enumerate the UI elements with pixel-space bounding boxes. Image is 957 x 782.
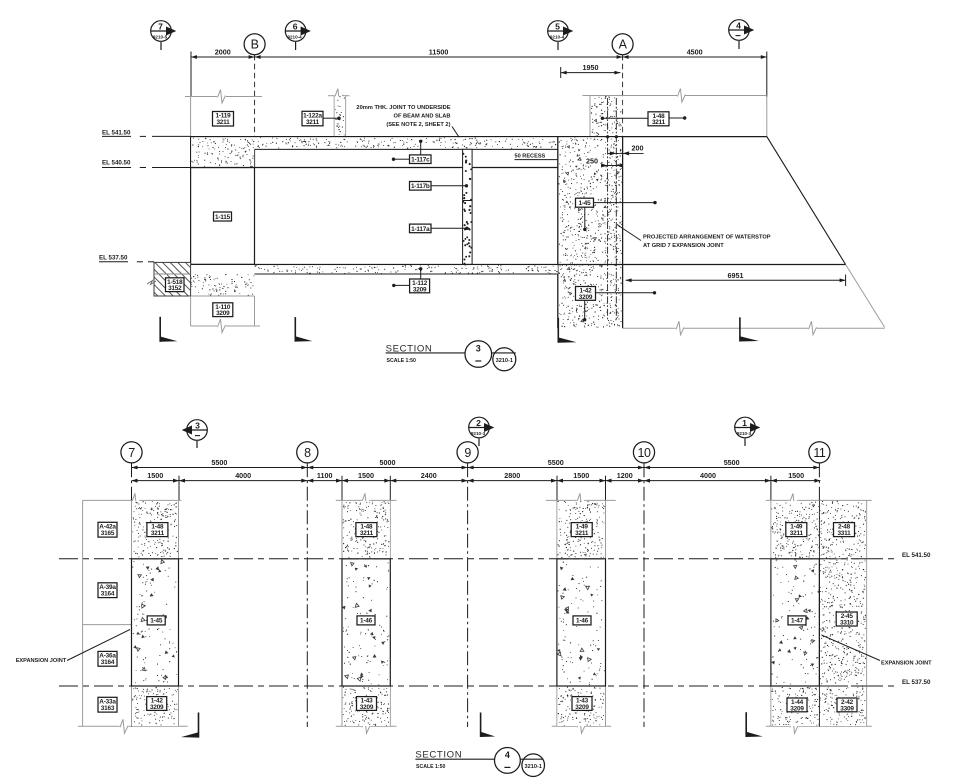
label 1-119/3211 (213, 112, 234, 127)
svg-text:PROJECTED ARRANGEMENT OF WATER: PROJECTED ARRANGEMENT OF WATERSTOP (643, 235, 771, 241)
svg-text:4000: 4000 (700, 471, 716, 480)
svg-text:3152: 3152 (168, 285, 182, 292)
svg-text:3209: 3209 (575, 704, 589, 711)
svg-text:3211: 3211 (575, 530, 589, 537)
svg-text:EXPANSION JOINT: EXPANSION JOINT (16, 658, 67, 664)
svg-text:3163: 3163 (101, 705, 115, 712)
svg-text:9: 9 (464, 446, 471, 460)
label 1-117c (392, 140, 431, 164)
svg-text:4: 4 (736, 20, 741, 30)
svg-text:1500: 1500 (573, 471, 589, 480)
svg-text:3164: 3164 (101, 659, 115, 666)
svg-text:9210-5: 9210-5 (153, 34, 168, 39)
EL 537.50 chain line (59, 685, 898, 687)
svg-text:3164: 3164 (101, 591, 115, 598)
svg-text:EXPANSION JOINT: EXPANSION JOINT (881, 661, 932, 667)
label 1-42/3209 (576, 287, 657, 322)
small wall stipple (335, 96, 345, 136)
svg-text:3209: 3209 (790, 705, 804, 712)
note 20mm thk joint (356, 105, 466, 149)
svg-text:3211: 3211 (790, 530, 804, 537)
svg-text:3211: 3211 (216, 119, 230, 126)
main dimension row 5500/5000/5500/5500 (132, 467, 820, 469)
dimension 1950 (561, 67, 621, 78)
section 3 title (386, 341, 516, 371)
svg-text:3211: 3211 (306, 119, 320, 126)
svg-text:EL 540.50: EL 540.50 (102, 159, 131, 166)
svg-text:B: B (251, 38, 259, 52)
svg-text:200: 200 (632, 144, 644, 153)
grid circle A (612, 34, 633, 137)
label 1-112/3209 (392, 267, 430, 293)
strip 3 (grid 9) (546, 493, 616, 733)
section marker 4 (729, 20, 755, 49)
svg-text:2: 2 (476, 418, 481, 428)
section marker 5 (9210-4) (548, 21, 574, 50)
svg-text:10: 10 (638, 446, 651, 460)
svg-text:3: 3 (195, 420, 200, 430)
svg-text:5: 5 (555, 21, 560, 31)
svg-text:1100: 1100 (317, 471, 333, 480)
svg-text:OF BEAM AND SLAB: OF BEAM AND SLAB (394, 114, 451, 120)
svg-text:1500: 1500 (147, 471, 163, 480)
svg-text:5500: 5500 (724, 458, 740, 467)
svg-text:AT GRID 7 EXPANSION JOINT: AT GRID 7 EXPANSION JOINT (643, 243, 724, 249)
section marker 6 (9210-4) (285, 21, 311, 50)
grid circles 7 8 9 10 11 (121, 442, 830, 463)
svg-text:5000: 5000 (380, 458, 396, 467)
svg-text:SCALE 1:50: SCALE 1:50 (387, 358, 417, 364)
svg-text:3211: 3211 (360, 530, 374, 537)
expansion joint note right (822, 635, 933, 667)
label 1-518/3152 (166, 278, 185, 292)
svg-text:4: 4 (505, 750, 510, 760)
section 4 title (415, 748, 544, 777)
label 1-45 (576, 198, 657, 231)
svg-text:6: 6 (293, 21, 298, 31)
svg-text:EL 537.50: EL 537.50 (99, 254, 128, 261)
beam strip at joint (463, 149, 473, 264)
svg-text:11500: 11500 (429, 48, 449, 57)
svg-text:1-47: 1-47 (791, 618, 804, 625)
svg-text:3310: 3310 (840, 619, 854, 626)
svg-text:7: 7 (158, 21, 163, 31)
section marker 7 (9210-5) (151, 21, 177, 50)
svg-text:9210-4: 9210-4 (550, 34, 565, 39)
top slab stipple band right (upper part) (255, 137, 558, 148)
svg-text:4500: 4500 (687, 48, 703, 57)
svg-text:4000: 4000 (235, 471, 251, 480)
svg-text:EL 541.50: EL 541.50 (102, 130, 131, 137)
svg-text:1-46: 1-46 (576, 618, 589, 625)
svg-text:EL 537.50: EL 537.50 (902, 679, 931, 686)
svg-text:3211: 3211 (151, 530, 165, 537)
label 1-110/3209 (213, 303, 233, 317)
parapet wall stipple above slab (591, 96, 623, 137)
dim 6951 (626, 271, 846, 286)
grid dash-dot lines down (132, 463, 820, 727)
svg-text:9210-3: 9210-3 (737, 431, 752, 436)
svg-text:50 RECESS: 50 RECESS (515, 154, 546, 160)
svg-text:8: 8 (304, 446, 311, 460)
label 1-117b (410, 182, 469, 191)
svg-text:1-45: 1-45 (579, 200, 592, 207)
svg-text:3165: 3165 (101, 530, 115, 537)
ground grey line under wall B (191, 296, 260, 333)
EL 541.50 chain line (59, 558, 898, 560)
svg-text:A: A (619, 38, 628, 52)
svg-text:1500: 1500 (358, 471, 374, 480)
EL 540.50 left (102, 159, 191, 167)
wall B below slab outline (191, 168, 255, 265)
svg-text:3210-1: 3210-1 (524, 764, 541, 770)
A-labels left of strip 1 (98, 522, 117, 712)
strip 2 (grid 8) (336, 493, 397, 733)
svg-text:9210-3: 9210-3 (471, 431, 486, 436)
label 1-122a/3211 (302, 111, 341, 126)
svg-text:1-45: 1-45 (150, 618, 163, 625)
svg-text:SCALE 1:50: SCALE 1:50 (416, 764, 446, 770)
strip 1 (grid 7) (78, 493, 188, 733)
dim 200 (608, 144, 644, 156)
svg-text:3211: 3211 (652, 119, 666, 126)
svg-text:EL 541.50: EL 541.50 (902, 552, 931, 559)
label 1-48/3211 top (601, 112, 687, 126)
section marker 3 (arrow left) (182, 420, 208, 448)
waterstop chain lines in wall (608, 98, 617, 320)
svg-text:2000: 2000 (215, 48, 231, 57)
svg-text:1950: 1950 (583, 63, 599, 72)
right trapezoid slab end (767, 137, 885, 328)
section cut marks (160, 317, 759, 343)
svg-text:6951: 6951 (728, 271, 744, 280)
svg-text:9210-4: 9210-4 (287, 34, 302, 39)
expansion joint note left (16, 630, 130, 664)
hatch block 1-518 (147, 262, 191, 296)
svg-text:1-115: 1-115 (215, 214, 231, 221)
grid 7 wall (big wall) (558, 137, 623, 329)
section cut marks bottom (181, 712, 763, 737)
labels strip 1 (147, 523, 168, 537)
top dimension line 2000 / 11500 / 4500 (191, 52, 767, 97)
svg-text:20mm THK. JOINT TO UNDERSIDE: 20mm THK. JOINT TO UNDERSIDE (356, 105, 450, 111)
chain overlay across strip 4b (819, 559, 866, 686)
label 1-117a (410, 224, 469, 233)
waterstop note (618, 225, 771, 249)
svg-text:250: 250 (586, 157, 598, 166)
dim 250 (584, 157, 623, 168)
sub dimension row (132, 476, 821, 501)
grid circle B (244, 34, 265, 137)
label 1-115 (214, 212, 232, 221)
svg-text:1500: 1500 (788, 471, 804, 480)
top slab outline (191, 137, 767, 168)
ground grey line right of wall A (623, 321, 885, 335)
svg-text:1-117a: 1-117a (411, 226, 430, 233)
grey elevation line over small wall (328, 89, 350, 137)
svg-text:3209: 3209 (360, 704, 374, 711)
svg-text:1-117c: 1-117c (411, 157, 430, 164)
bottom slab top line (154, 264, 846, 266)
svg-text:5500: 5500 (211, 458, 227, 467)
svg-text:2800: 2800 (504, 471, 520, 480)
svg-text:1: 1 (742, 418, 747, 428)
svg-text:1-117b: 1-117b (411, 183, 430, 190)
svg-text:2400: 2400 (421, 471, 437, 480)
svg-text:3: 3 (476, 344, 481, 354)
grey elevation line over parapet wall A (582, 89, 766, 137)
bottom slab stipple thin band (191, 265, 558, 274)
svg-text:1-46: 1-46 (360, 618, 373, 625)
svg-text:3210-1: 3210-1 (496, 358, 513, 364)
EL 537.50 left (99, 254, 154, 262)
svg-text:3309: 3309 (840, 705, 854, 712)
svg-text:3311: 3311 (837, 530, 851, 537)
50 RECESS note (515, 154, 558, 160)
strip 4 (grid 11, double) (766, 493, 872, 733)
svg-text:5500: 5500 (548, 458, 564, 467)
svg-text:3209: 3209 (579, 294, 593, 301)
svg-text:(SEE NOTE 2, SHEET 2): (SEE NOTE 2, SHEET 2) (386, 122, 450, 128)
EL 541.50 left (102, 130, 191, 137)
svg-text:11: 11 (813, 446, 826, 460)
svg-text:3209: 3209 (150, 704, 164, 711)
section marker 2 (9210-3) (469, 417, 495, 446)
svg-text:7: 7 (128, 446, 135, 460)
top slab stipple band left (full depth at wall B) (191, 137, 254, 167)
svg-text:3209: 3209 (216, 310, 230, 317)
grey elevation line over wall B (185, 90, 262, 137)
bottom slab deep band below wall B (191, 265, 255, 296)
svg-text:3209: 3209 (413, 286, 427, 293)
svg-text:1200: 1200 (617, 471, 633, 480)
section marker 1 (9210-3) (735, 417, 761, 446)
